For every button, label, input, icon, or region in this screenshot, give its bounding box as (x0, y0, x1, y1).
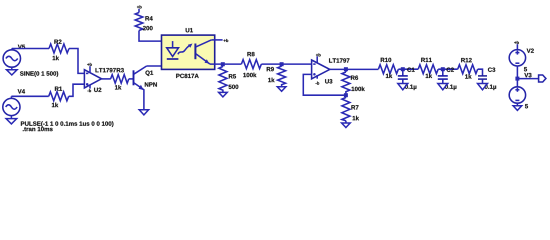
flag +b above V2 (514, 41, 519, 44)
output port arrow (539, 75, 546, 82)
resistor R2 (49, 44, 69, 53)
flag -b below U2 (87, 89, 91, 92)
label 1k of R10 (386, 74, 392, 78)
label R8 (247, 52, 254, 56)
resistor R3 (111, 75, 129, 84)
label 1k of R1 (52, 103, 58, 107)
resistor R9 (278, 64, 286, 87)
label R3 (117, 68, 124, 72)
label R5 (229, 74, 236, 78)
resistor R12 (458, 65, 478, 74)
wire feedback loop U3 (303, 74, 346, 95)
op-amp U3 (312, 56, 330, 79)
resistor R6 (342, 69, 350, 95)
wire R3 to Q1 base (129, 78, 134, 80)
label 0.1u of C2 (445, 85, 456, 91)
label 1k of R3 (115, 85, 121, 89)
label .tran 10ms (23, 127, 53, 131)
label U2 (94, 88, 101, 92)
label C1 (407, 68, 414, 72)
flag +b above U2 (87, 63, 92, 66)
label NPN (145, 82, 157, 86)
label C3 (488, 68, 495, 72)
wire R4 to opto anode (139, 31, 173, 42)
label 5 of V3 (525, 104, 528, 108)
label R9 (267, 67, 274, 71)
flag +b at opto collector (224, 39, 229, 42)
label U3 (325, 79, 332, 83)
label LT1797 of U3 (329, 58, 349, 62)
voltage source V4 (pulse) (3, 96, 20, 115)
ground under C3 (478, 84, 488, 90)
label 0.1u of C3 (485, 85, 496, 91)
resistor R7 (342, 95, 350, 123)
node junction emitter/R5/R8 (221, 62, 225, 66)
node junction R6 top (344, 67, 348, 71)
label R11 (421, 58, 432, 62)
wire V2 to V3 (516, 66, 518, 87)
label 1k of R9 (268, 78, 274, 82)
voltage source V2 (509, 44, 525, 66)
resistor R4 (135, 9, 143, 31)
capacitor C1 (398, 69, 408, 83)
ground under R9 (277, 87, 286, 92)
label R4 (145, 16, 152, 20)
wire junction to port (517, 78, 538, 80)
ground under C1 (398, 84, 408, 90)
ground under V3 (513, 103, 522, 110)
resistor R5 (219, 64, 227, 92)
wire U2 out to R3 (102, 78, 111, 80)
label LT1797 of U2 (96, 68, 116, 72)
wire Q1 collector to opto cathode (147, 59, 173, 66)
label 1k of R7 (353, 116, 359, 120)
wire opto collector to +b flag (211, 39, 222, 41)
voltage source V5 (sine) (3, 49, 20, 68)
label V5 (18, 45, 25, 49)
capacitor C3 (478, 76, 487, 84)
voltage source V3 (509, 87, 525, 103)
resistor R1 (49, 92, 69, 101)
label 1k of R11 (426, 74, 432, 78)
label 1k of R12 (465, 74, 471, 78)
capacitor C2 (438, 69, 448, 83)
node junction C2 (441, 67, 445, 71)
wire V4 top to R1 (11, 95, 48, 97)
label 500 (229, 85, 239, 89)
label R10 (381, 58, 392, 62)
label R2 (54, 40, 61, 44)
label R6 (351, 76, 358, 80)
resistor R10 (378, 65, 398, 74)
label 1k of R2 (53, 56, 59, 60)
label V4 (18, 89, 25, 93)
ground under V5 (7, 67, 18, 75)
resistor R8 (241, 60, 261, 69)
ground under R7 (342, 123, 351, 128)
op-amp U2 (84, 66, 101, 88)
label PC817A (176, 74, 198, 78)
node junction R6/R7/loop (344, 93, 348, 97)
label V2 (527, 49, 534, 53)
flag -b below U3 (316, 82, 320, 85)
label 5 of V2 (524, 67, 527, 71)
wire U3 output to ladder (330, 68, 379, 70)
wire R8 to R9 junction (261, 63, 311, 65)
wire R10 to C1 (398, 68, 418, 70)
node junction C1 (401, 67, 405, 71)
label 100k of R8 (243, 73, 256, 77)
label V3 (524, 73, 531, 77)
label PULSE (21, 121, 114, 127)
label Q1 (145, 71, 153, 76)
flag +b above R4 (137, 5, 142, 8)
label 100k of R6 (352, 87, 365, 91)
label R1 (55, 87, 62, 91)
wire V5 top to R2 (12, 48, 49, 50)
label U1 (186, 28, 193, 32)
wire R1 to corner (69, 84, 85, 96)
label SINE(0 1 500) (20, 71, 58, 77)
wire R12 to C3 (478, 69, 483, 75)
optocoupler U1 PC817A (162, 35, 215, 69)
ground under V4 (6, 116, 17, 124)
ground under C2 (438, 84, 448, 90)
wire R2 to corner (69, 49, 84, 74)
label 0.1u of C1 (405, 85, 416, 91)
wire R11 to C2 (438, 68, 458, 70)
label R7 (351, 105, 358, 109)
ground under Q1 emitter (139, 110, 148, 115)
flag +b above U3 (316, 53, 321, 56)
resistor R11 (418, 65, 438, 74)
node junction V2/V3/port (515, 77, 519, 81)
label R12 (461, 58, 472, 62)
transistor Q1 NPN (134, 66, 147, 110)
label C2 (447, 68, 454, 72)
label 200 (143, 26, 153, 30)
wire opto emitter to junction (210, 63, 241, 65)
ground under R5 (219, 92, 228, 97)
node junction R9 (280, 62, 284, 66)
